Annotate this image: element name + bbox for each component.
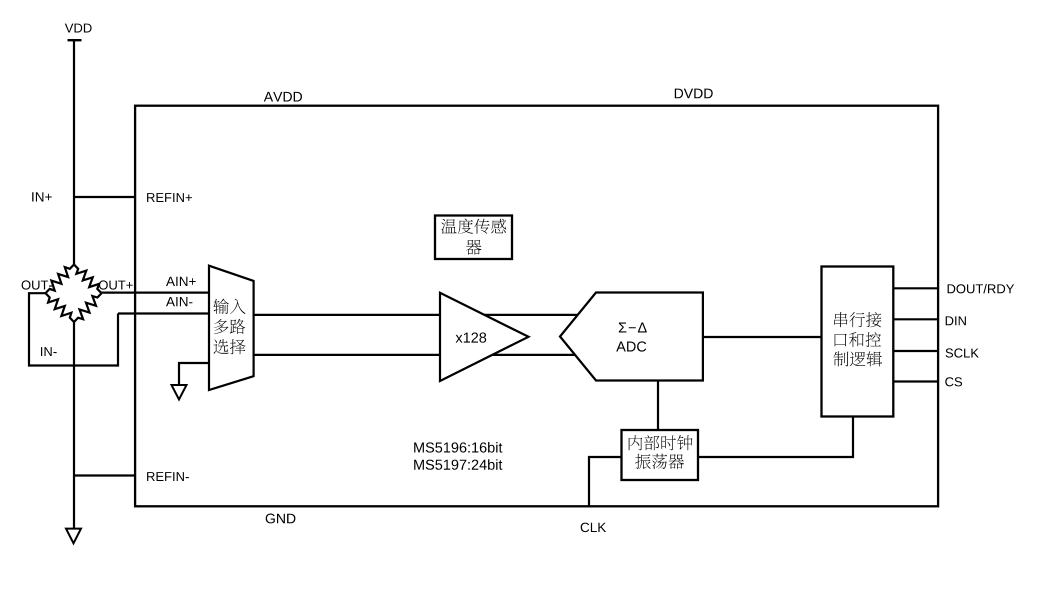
label temp line2 器 xyxy=(466,240,482,255)
label mux line3 选择 xyxy=(214,339,246,354)
wire DOUT/RDY pin xyxy=(893,287,938,289)
mux block (input multiplexer) xyxy=(209,266,254,390)
label SCLK xyxy=(946,348,979,357)
label AIN- xyxy=(166,297,192,306)
label OUT- xyxy=(22,280,53,289)
label CLK xyxy=(581,523,606,533)
power VDD symbol xyxy=(65,24,92,41)
label DVDD xyxy=(675,89,713,99)
label osc line2 振荡器 xyxy=(635,454,684,469)
label REFIN+ xyxy=(147,193,192,202)
resistor bridge bottom-right xyxy=(74,293,102,322)
wire ADC to oscillator xyxy=(657,381,659,432)
wire mux to ground xyxy=(179,363,209,385)
wire OUT+ to mux (AIN+) xyxy=(102,292,210,294)
wire OUT- loop to AIN- xyxy=(29,293,118,365)
serial interface and control logic box xyxy=(822,267,894,417)
wire oscillator to CLK pin xyxy=(589,457,622,506)
amplifier x128 xyxy=(440,293,529,381)
wire AIN- to mux xyxy=(118,312,210,314)
wire oscillator to serial interface xyxy=(698,417,853,458)
sigma-delta ADC block xyxy=(560,293,703,381)
label mux line2 多路 xyxy=(214,319,246,334)
resistor bridge top-left xyxy=(46,265,75,294)
label MS5197:24bit xyxy=(414,459,502,470)
label DOUT/RDY xyxy=(948,284,1015,294)
label GND xyxy=(266,514,296,524)
label CS xyxy=(945,377,962,386)
label MS5196:16bit xyxy=(414,442,502,453)
label osc line1 内部时钟 xyxy=(629,435,693,450)
label mux line1 输入 xyxy=(213,299,245,314)
internal clock oscillator box xyxy=(622,430,699,480)
label serial line2 口和控 xyxy=(835,332,881,347)
wire SCLK pin xyxy=(893,350,938,352)
label AVDD xyxy=(264,92,302,102)
temperature sensor box xyxy=(435,216,512,260)
label IN- xyxy=(41,347,57,356)
wire DIN pin xyxy=(893,318,938,320)
wire bridge bottom to ground xyxy=(73,321,75,529)
label x128 xyxy=(456,333,487,343)
label serial line3 制逻辑 xyxy=(833,351,882,366)
resistor bridge bottom-left xyxy=(46,293,75,322)
label REFIN- xyxy=(147,472,189,481)
label sigma-delta xyxy=(619,323,647,333)
ground symbol mux xyxy=(172,385,187,400)
label DIN xyxy=(946,316,966,325)
wire mux output top to ADC xyxy=(253,314,580,316)
label temp line1 温度传感 xyxy=(441,219,506,234)
label AIN+ xyxy=(166,277,196,286)
wire VDD to bridge top node xyxy=(73,40,75,265)
wire CS pin xyxy=(893,380,938,382)
label ADC xyxy=(616,341,646,351)
ground symbol bottom xyxy=(66,529,81,544)
resistor bridge top-right xyxy=(74,265,102,294)
chip outline box xyxy=(135,106,938,507)
label OUT+ xyxy=(99,280,133,289)
wire REFIN- stub xyxy=(74,474,136,476)
wire mux output bottom to ADC xyxy=(253,354,580,356)
label serial line1 串行接 xyxy=(834,312,881,327)
wire ADC to serial interface xyxy=(703,336,823,338)
label IN+ xyxy=(32,192,52,201)
wire IN+ to REFIN+ pin xyxy=(74,196,136,198)
